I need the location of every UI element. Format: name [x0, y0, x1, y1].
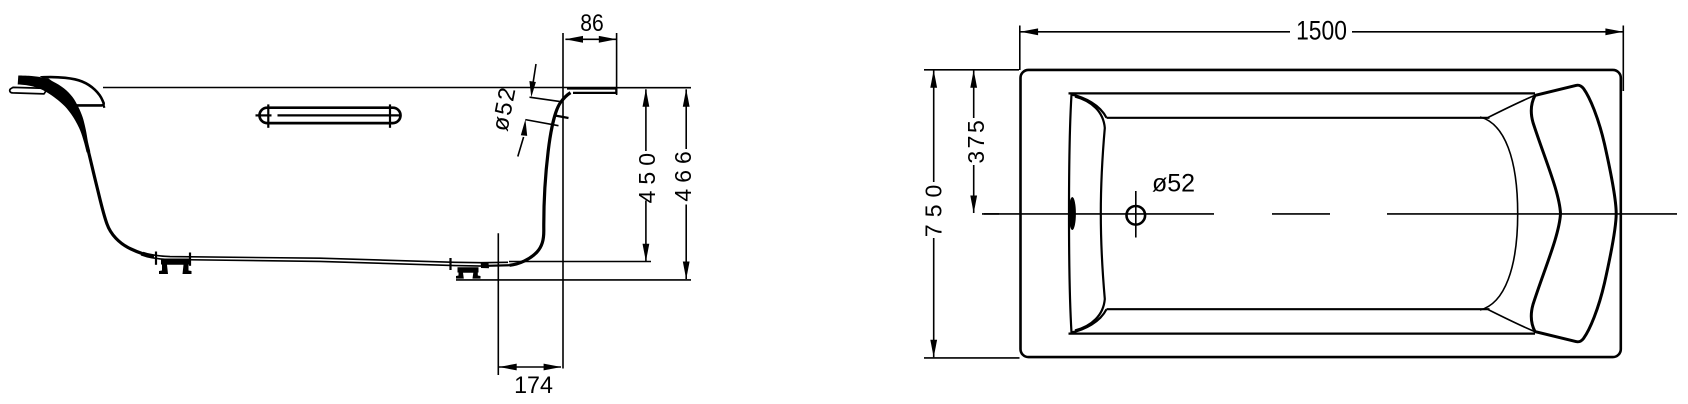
right foot pin 1: [449, 258, 451, 270]
dia52 lower extension line: [525, 120, 558, 126]
dim 174 line: [499, 366, 561, 368]
svg-text:450: 450: [634, 147, 660, 203]
dim 750/375 top extension line: [924, 69, 1019, 71]
svg-text:ø52: ø52: [1152, 170, 1195, 198]
headrest pillow (white with outline): [44, 77, 104, 105]
side view top rim line: [103, 87, 617, 89]
dim 466 line upper part: [685, 89, 687, 149]
dim 86 line: [565, 38, 616, 40]
backrest floor bow curve: [1480, 117, 1518, 310]
left end floor curve: [1075, 97, 1105, 331]
outer rounded rectangle: [1021, 70, 1621, 357]
left foot pin 1: [155, 252, 157, 265]
dia52 hole tick on wall: [555, 116, 569, 119]
dim 750 bottom extension line: [924, 357, 1020, 359]
right rim bottom edge: [573, 88, 616, 93]
rim top extension line to 466: [617, 87, 691, 89]
dim 86 right extension line: [616, 33, 618, 95]
dim 174 right arrow: [544, 364, 562, 371]
inner rim bottom line: [1069, 333, 1536, 335]
left end top corner curve: [1072, 95, 1107, 118]
dim 750 line upper part: [933, 70, 935, 182]
handle left post: [267, 104, 269, 127]
left foot bracket: [159, 259, 192, 275]
dia52 lower arrow shaft: [518, 137, 524, 157]
tub bottom right segment to wall: [487, 264, 510, 267]
diagonal from floor line to pillow top corner: [1488, 96, 1534, 118]
right foot bracket: [456, 267, 481, 278]
left wall of tub: [87, 144, 155, 256]
svg-text:1500: 1500: [1296, 16, 1347, 46]
dim 1500 right arrow: [1605, 28, 1623, 35]
dia52 lower arrowhead: [521, 119, 527, 135]
pillow (headrest) outline: [1531, 85, 1616, 342]
dim 1500 right extension line: [1622, 26, 1624, 92]
dim 174 left extension line: [497, 233, 499, 375]
dim 375 line lower part: [973, 165, 975, 213]
dim 1500 left extension line: [1019, 26, 1021, 71]
dia52 upper arrowhead: [529, 81, 536, 97]
inner rim top line: [1069, 92, 1536, 94]
handle midline main segment: [278, 114, 402, 116]
dim 1500 left arrow: [1020, 28, 1038, 35]
foot base extension line for 466: [456, 279, 691, 281]
dim 450 line lower part: [645, 201, 647, 262]
left end wall curve (outer): [1069, 95, 1072, 333]
dim 450 top arrow: [643, 89, 650, 107]
dim 450 line upper part: [645, 89, 647, 151]
svg-text:ø52: ø52: [487, 84, 521, 133]
tub bottom lower line: [141, 255, 482, 266]
dim 466 bottom arrow: [683, 262, 690, 280]
right wall of tub: [510, 93, 571, 266]
dim 466 top arrow: [683, 89, 690, 107]
dim 86 right arrow: [599, 36, 617, 43]
long vertical extension line x=563: [562, 33, 564, 369]
dim 375 bottom arrow: [970, 196, 977, 214]
plan centerline solid right: [1387, 213, 1677, 215]
left foot legs: [165, 259, 187, 273]
inner floor top line: [1107, 117, 1490, 119]
drain circle: [1127, 206, 1146, 225]
handle right post: [389, 104, 391, 127]
svg-text:466: 466: [670, 145, 696, 201]
dim 1500 line left part: [1020, 31, 1290, 33]
diagonal from floor line to pillow bottom corner: [1488, 310, 1534, 332]
svg-text:86: 86: [580, 10, 603, 37]
dim 466 line lower part: [685, 205, 687, 280]
dim 450 bottom arrow: [643, 244, 650, 262]
dim 450 bottom extension line: [509, 261, 651, 263]
dim 174 left arrow: [499, 364, 517, 371]
dim 1500 line right part: [1352, 31, 1623, 33]
drain vertical tick: [1135, 191, 1137, 238]
svg-text:750: 750: [921, 178, 947, 237]
svg-text:375: 375: [963, 118, 989, 164]
dim 86 left arrow: [565, 36, 583, 43]
handle stadium: [260, 108, 401, 123]
handle midline left segment: [256, 114, 272, 116]
svg-text:174: 174: [514, 371, 553, 399]
tub bottom upper line: [143, 253, 508, 263]
headrest rolled rim band (filled): [18, 76, 91, 153]
plan centerline dash: [1272, 213, 1330, 215]
dim 375 line upper part: [973, 70, 975, 118]
headrest lip: [10, 87, 48, 94]
dia52 upper extension line: [530, 97, 563, 102]
overflow hole lens: [1069, 197, 1076, 230]
dim 750 bottom arrow: [930, 340, 937, 358]
right rim top edge: [567, 87, 616, 89]
left foot pin 2: [189, 253, 191, 266]
left end bottom corner curve: [1072, 309, 1107, 332]
dim 750 line lower part: [933, 238, 935, 357]
headrest pillow right-end tick: [102, 105, 105, 108]
plan centerline solid left: [982, 213, 1214, 215]
centerline left tick for 375: [984, 213, 999, 215]
right foot pin blob: [481, 263, 489, 268]
inner floor bottom line: [1107, 308, 1490, 310]
dia52 upper arrow shaft: [533, 64, 536, 82]
dim 375 top arrow: [970, 70, 977, 88]
dim 750 top arrow: [930, 70, 937, 88]
